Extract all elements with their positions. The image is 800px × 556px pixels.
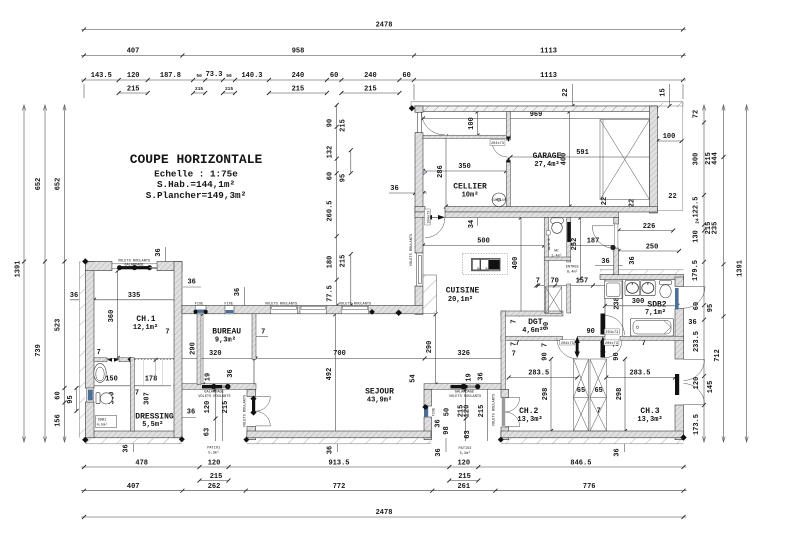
room label SDB1 boxed	[96, 416, 117, 428]
svg-text:SDB1: SDB1	[98, 419, 107, 423]
corner diamonds	[82, 105, 687, 443]
svg-text:19: 19	[204, 373, 212, 381]
wall: left wing north galandage strip	[112, 264, 157, 269]
svg-text:178: 178	[145, 376, 158, 384]
svg-text:204x73: 204x73	[491, 142, 504, 146]
svg-text:SEJOUR: SEJOUR	[365, 388, 394, 397]
wall: bureau/sejour north	[182, 306, 423, 314]
wall: wc east lower	[567, 284, 571, 313]
svg-text:90: 90	[543, 322, 551, 330]
cellier water heater	[491, 193, 506, 207]
closet X: ch3 side	[590, 359, 607, 431]
eaves hatch south right wing	[501, 438, 684, 444]
svg-text:286: 286	[437, 165, 445, 178]
svg-text:240: 240	[292, 72, 305, 80]
svg-text:350: 350	[458, 163, 471, 171]
wall: left wing west seg1	[85, 262, 94, 389]
svg-text:36: 36	[123, 444, 131, 452]
svg-text:261: 261	[457, 483, 470, 491]
tiny label 204x73 ch2 door	[560, 340, 575, 346]
svg-text:36: 36	[688, 319, 696, 327]
wall: cellier inner north	[423, 135, 511, 138]
dim 290 bureau	[189, 312, 205, 387]
dim 238 sdb2	[614, 280, 623, 337]
wc toilet	[546, 218, 563, 235]
svg-text:CH.3: CH.3	[640, 407, 659, 416]
svg-text:252: 252	[571, 238, 579, 251]
door leaf: wc	[567, 222, 570, 242]
svg-text:65: 65	[594, 387, 602, 395]
dim labels galandage areas	[204, 369, 485, 382]
wall: galandage patio2	[424, 384, 504, 390]
svg-text:500: 500	[477, 238, 490, 246]
svg-text:36: 36	[187, 279, 195, 287]
svg-text:120: 120	[464, 405, 472, 418]
eaves hatch top wing	[411, 102, 683, 106]
svg-text:772: 772	[333, 483, 346, 491]
dim labels sdb1/dressing	[94, 349, 171, 405]
svg-text:FIXE: FIXE	[224, 303, 233, 307]
wall: south right wing	[501, 431, 684, 438]
svg-text:1391: 1391	[737, 260, 745, 277]
sdb2 bathtub	[631, 319, 674, 337]
dim 215/444/235/712 right	[705, 105, 726, 442]
svg-text:4,6m²: 4,6m²	[522, 327, 543, 335]
svg-text:95: 95	[67, 395, 75, 403]
svg-text:120: 120	[127, 72, 140, 80]
svg-text:GALANDAGE: GALANDAGE	[124, 263, 143, 267]
dim 7/90 small labels	[511, 319, 646, 360]
svg-text:300: 300	[693, 153, 701, 166]
arc: cellier-garage door	[492, 137, 511, 163]
dim 95/215 secondary	[340, 119, 353, 307]
DIMENSIONS-RIGHT	[692, 105, 748, 442]
svg-text:300: 300	[632, 298, 645, 306]
svg-text:400: 400	[560, 153, 568, 166]
dim labels patio2	[434, 388, 487, 442]
wall: top wing west / kitchen west upper	[415, 106, 423, 112]
dim row 478/120/913.5/120/846.5	[81, 459, 687, 469]
wall: left wing north seg2	[157, 262, 182, 271]
dim 187 hall	[569, 238, 618, 248]
svg-text:7: 7	[642, 340, 646, 348]
svg-text:CH.2: CH.2	[519, 407, 538, 416]
wall: ch2/ch3 north seg3	[620, 336, 684, 340]
dressing north dotted line	[128, 357, 174, 386]
wall: south sejour	[247, 431, 431, 438]
svg-text:215: 215	[478, 405, 486, 418]
sdb1 toilet	[96, 393, 112, 404]
wall: sdb2 west post upper (black)	[601, 314, 606, 335]
wall: ch1/sdb1 divider seg1	[94, 358, 107, 362]
svg-text:DGT: DGT	[528, 318, 543, 327]
svg-text:100: 100	[663, 133, 676, 141]
svg-text:233.5: 233.5	[693, 331, 701, 352]
door leaf: ch2 from dgt	[575, 337, 580, 359]
svg-text:591: 591	[576, 149, 589, 157]
eaves hatch south sejour	[247, 438, 431, 444]
svg-text:CUMULUS: CUMULUS	[491, 199, 506, 203]
dim 290 cuisine/patio	[426, 312, 437, 386]
svg-text:65: 65	[577, 387, 585, 395]
svg-text:7: 7	[515, 340, 519, 348]
svg-text:Echelle : 1:75e: Echelle : 1:75e	[154, 169, 238, 180]
tiny label 204x73 sdb2 door	[604, 329, 619, 335]
wall: ch2 west seg2	[501, 427, 509, 440]
west wall marker	[418, 163, 428, 179]
DIMENSIONS-LEFT	[15, 105, 79, 442]
wall: wc west	[544, 218, 548, 314]
wall: ch2/ch3 north seg2	[578, 336, 606, 340]
dim 65/65/7 closets	[577, 387, 603, 416]
wall: corridor south liner east	[445, 212, 619, 218]
eaves hatch sdb2 north	[600, 270, 684, 275]
arc: dgt-ch2 door	[557, 339, 577, 359]
svg-text:238: 238	[614, 297, 622, 310]
wall: cellier east lower	[506, 160, 510, 207]
svg-text:GALANDAGE: GALANDAGE	[455, 390, 474, 394]
arc: entrance door	[592, 224, 618, 250]
svg-text:13,3m²: 13,3m²	[517, 416, 542, 424]
dim 226 entree	[617, 223, 676, 233]
dim 215 short (patio2)	[447, 473, 480, 483]
kitchen counter west	[423, 275, 437, 314]
svg-text:130: 130	[693, 230, 701, 243]
wall: ch1/sdb1 divider seg2	[119, 358, 134, 362]
dim 591 garage width	[509, 149, 656, 159]
dim 252 hall	[571, 216, 583, 281]
galandage door: patio2 (black bar)	[451, 384, 481, 390]
svg-text:13,3m²: 13,3m²	[637, 416, 662, 424]
garage slab X box	[600, 120, 650, 200]
svg-text:36: 36	[478, 372, 486, 380]
svg-text:50: 50	[226, 73, 232, 79]
svg-text:7: 7	[97, 349, 101, 357]
svg-text:7: 7	[536, 277, 540, 285]
svg-text:36: 36	[434, 419, 442, 427]
svg-text:36: 36	[327, 446, 335, 454]
wall: galandage patio1	[174, 384, 256, 390]
svg-text:120: 120	[693, 377, 701, 390]
svg-text:179.5: 179.5	[692, 260, 700, 281]
svg-text:204x73: 204x73	[428, 211, 432, 224]
wall: sdb2 west post lower (black)	[601, 341, 606, 358]
dim 969 garage north	[421, 111, 659, 121]
svg-text:36: 36	[227, 369, 235, 377]
wall: sejour east seg2	[424, 417, 432, 440]
svg-text:122.5: 122.5	[693, 196, 701, 217]
svg-text:400: 400	[512, 257, 520, 270]
svg-text:478: 478	[135, 459, 148, 467]
dim 7 bureau labels	[165, 329, 268, 337]
svg-text:215: 215	[222, 401, 230, 414]
wall: garage east	[649, 106, 657, 213]
svg-text:1113: 1113	[540, 72, 557, 80]
svg-text:1113: 1113	[540, 48, 557, 56]
dim 300 sdb2	[603, 280, 680, 337]
svg-text:50: 50	[444, 408, 452, 416]
svg-text:VOLETS ROULANTS: VOLETS ROULANTS	[198, 395, 230, 399]
dim row 215s	[117, 85, 402, 95]
sdb2 double washbasin	[625, 281, 655, 296]
dim row 407/262/772/261/776	[81, 483, 687, 493]
window: bureau north fixe 2	[225, 306, 234, 314]
svg-text:PATIO1: PATIO1	[207, 447, 220, 451]
wall: ch2/ch3 north seg1	[501, 336, 563, 340]
svg-text:262: 262	[208, 483, 221, 491]
window: sdb1 west (fixe, blue)	[87, 388, 94, 402]
svg-text:60: 60	[55, 391, 63, 399]
svg-text:215: 215	[458, 473, 471, 481]
svg-text:215: 215	[364, 85, 377, 93]
dim 298 ch2	[542, 357, 553, 433]
wall: sejour west seg1	[247, 389, 256, 396]
wall: wc south	[544, 257, 571, 261]
svg-text:145: 145	[707, 381, 715, 394]
svg-text:187.8: 187.8	[160, 72, 181, 80]
wall: sdb2 north	[600, 275, 684, 280]
svg-text:187: 187	[587, 238, 600, 246]
svg-text:180: 180	[327, 256, 335, 269]
wall: right wing east seg1	[675, 277, 684, 287]
arc: dgt-sdb2 door	[605, 316, 625, 336]
svg-text:652: 652	[55, 178, 63, 191]
dim 652/523/60/156 left	[55, 105, 67, 442]
window: sejour east fixe (blue)	[424, 405, 428, 417]
arc: dgt-ch3 door	[605, 340, 623, 358]
door arrows: cellier-kitchen opening	[425, 215, 445, 220]
wall: entrance east lower	[614, 248, 619, 277]
dim 298 ch3	[616, 357, 627, 433]
dim 36 south rotated labels	[123, 438, 625, 457]
svg-text:36: 36	[629, 256, 637, 264]
svg-text:95: 95	[707, 304, 715, 312]
svg-text:54: 54	[409, 374, 417, 382]
svg-text:7,1m²: 7,1m²	[645, 309, 666, 317]
svg-text:204x73: 204x73	[605, 342, 618, 346]
dim 36 entree	[595, 256, 637, 266]
svg-text:60: 60	[693, 302, 701, 310]
svg-text:140.3: 140.3	[241, 72, 262, 80]
svg-text:36: 36	[234, 288, 242, 296]
svg-text:36: 36	[435, 448, 443, 456]
dim 95/145 right short	[707, 304, 715, 394]
svg-text:913.5: 913.5	[328, 459, 349, 467]
wall: kitchen west lower (below window)	[415, 286, 423, 314]
svg-text:846.5: 846.5	[570, 459, 591, 467]
dim 95 left short	[67, 386, 79, 413]
svg-text:7: 7	[512, 351, 516, 359]
svg-text:444: 444	[711, 152, 719, 165]
svg-text:712: 712	[714, 349, 722, 362]
svg-text:215: 215	[340, 119, 348, 132]
svg-text:335: 335	[128, 292, 141, 300]
svg-text:7: 7	[597, 408, 601, 416]
svg-text:7: 7	[261, 329, 265, 337]
wall: left wing north seg1	[85, 262, 112, 271]
svg-text:27,4m²: 27,4m²	[534, 161, 559, 169]
wall: dgt west	[501, 311, 506, 389]
svg-text:90: 90	[586, 328, 594, 336]
svg-text:50: 50	[196, 73, 202, 79]
door leaf: ch3 from dgt	[600, 337, 605, 359]
wall: south left wing	[85, 431, 182, 438]
arc: sdb2 east door	[684, 287, 706, 309]
svg-text:COUPE HORIZONTALE: COUPE HORIZONTALE	[130, 152, 263, 167]
svg-text:298: 298	[542, 388, 550, 401]
dim row 143.5 .. 1113	[81, 71, 686, 82]
svg-text:95: 95	[340, 174, 348, 182]
svg-text:72: 72	[693, 110, 701, 118]
svg-text:ENTREE: ENTREE	[566, 266, 579, 270]
dim 100 cellier door	[468, 110, 480, 138]
arc: ch2 patio french door	[502, 398, 520, 427]
svg-text:36: 36	[390, 185, 398, 193]
svg-text:298: 298	[616, 388, 624, 401]
window: sejour west (black bar)	[252, 400, 255, 412]
arc: cellier-kitchen door	[425, 218, 445, 238]
svg-text:283.5: 283.5	[528, 370, 549, 378]
svg-text:215: 215	[127, 85, 140, 93]
wall: garage/corridor south outer west part	[415, 207, 425, 213]
svg-text:132: 132	[327, 146, 335, 159]
dim row 407/958/1113	[81, 48, 686, 58]
svg-text:250: 250	[646, 243, 659, 251]
svg-text:290: 290	[426, 341, 434, 354]
tiny label 204x73 cellier-kitchen door rot	[425, 209, 432, 225]
svg-text:60: 60	[402, 72, 410, 80]
dim 2478 top	[81, 22, 686, 32]
svg-text:157: 157	[576, 277, 589, 285]
wall: garage/corridor south outer east part	[445, 207, 657, 213]
svg-text:739: 739	[35, 344, 43, 357]
svg-text:VOLETS ROULANTS: VOLETS ROULANTS	[493, 394, 497, 426]
svg-text:958: 958	[292, 48, 305, 56]
svg-text:GALANDAGE: GALANDAGE	[204, 390, 223, 394]
eaves hatch garage east	[657, 102, 682, 211]
closet X: ch2 side	[574, 359, 589, 431]
svg-text:9,3m²: 9,3m²	[215, 337, 236, 345]
svg-text:235: 235	[711, 222, 719, 235]
dim 283.5 ch3	[604, 370, 677, 380]
svg-text:63: 63	[204, 428, 212, 436]
svg-text:407: 407	[127, 483, 140, 491]
svg-text:150: 150	[105, 376, 118, 384]
arc: ch3 east french door	[684, 360, 705, 405]
svg-text:VOLETS ROULANTS: VOLETS ROULANTS	[265, 303, 297, 307]
svg-text:204x73: 204x73	[605, 331, 618, 335]
galandage door: patio1 (black bar)	[202, 384, 231, 389]
svg-text:FIXE: FIXE	[195, 303, 204, 307]
svg-text:19: 19	[466, 373, 474, 381]
DIMENSIONS-TOP	[81, 22, 686, 101]
svg-text:143.5: 143.5	[91, 72, 112, 80]
svg-text:215: 215	[225, 86, 233, 92]
wall: bureau east thin continuation	[253, 359, 255, 384]
wall: cellier east upper	[506, 112, 510, 141]
dim 360 ch1	[108, 269, 120, 360]
svg-text:WC: WC	[554, 250, 558, 254]
svg-text:VOLETS ROULANTS: VOLETS ROULANTS	[244, 395, 248, 427]
svg-text:240: 240	[364, 72, 377, 80]
svg-text:120: 120	[208, 459, 221, 467]
svg-text:226: 226	[643, 223, 656, 231]
dim 215 short (patio1)	[198, 473, 231, 483]
svg-text:5,5m²: 5,5m²	[142, 421, 163, 429]
svg-text:204x73: 204x73	[561, 342, 574, 346]
svg-text:2478: 2478	[376, 509, 393, 517]
dim 36/335 ch1	[70, 292, 180, 302]
svg-text:36: 36	[187, 409, 195, 417]
wall: top wing north	[415, 106, 657, 112]
svg-text:90: 90	[542, 352, 550, 360]
dim 100 garage right	[655, 133, 683, 143]
closet X: dgt	[545, 287, 561, 313]
wall: bureau west pocket	[197, 314, 201, 385]
dim 492 sejour	[326, 312, 337, 435]
dim labels patio1	[204, 388, 230, 442]
dim 7/70/157 hall	[535, 277, 617, 287]
extension lines top	[83, 84, 85, 98]
wall: sejour west seg2	[247, 427, 256, 440]
wall: right wing east seg2	[675, 309, 684, 360]
door arrows: sdb1 opening	[107, 358, 119, 362]
svg-text:73.3: 73.3	[206, 71, 223, 79]
svg-text:5,3m²: 5,3m²	[208, 452, 219, 456]
svg-text:1391: 1391	[15, 261, 23, 278]
svg-text:120: 120	[457, 459, 470, 467]
svg-text:7: 7	[542, 343, 550, 347]
dim chain 90/132/60/260.5/180/77.5	[327, 103, 339, 308]
svg-text:10m²: 10m²	[462, 192, 479, 200]
svg-text:CUISINE: CUISINE	[446, 287, 480, 296]
svg-text:98: 98	[443, 426, 451, 434]
dim 652/739 left	[35, 105, 47, 442]
dim 36 dressing east wall	[178, 409, 197, 418]
svg-text:60: 60	[327, 172, 335, 180]
dim 2478 bottom	[81, 509, 687, 519]
svg-text:36: 36	[155, 248, 163, 256]
galandage door: left wing north (black bar)	[117, 265, 157, 270]
svg-text:S.Plancher=149,3m²: S.Plancher=149,3m²	[146, 190, 246, 201]
wall: left wing west seg2	[85, 402, 94, 438]
TITLE	[130, 152, 263, 201]
svg-text:63: 63	[464, 430, 472, 438]
eaves hatch left wing west	[79, 262, 85, 438]
svg-text:173.5: 173.5	[693, 414, 701, 435]
svg-text:215: 215	[340, 255, 348, 268]
tiny label 204x73 cellier-garage door	[490, 140, 505, 146]
dim 34	[468, 218, 478, 229]
svg-text:360: 360	[108, 310, 116, 323]
dim line 320/700/326	[91, 350, 505, 361]
svg-text:22: 22	[562, 88, 570, 96]
svg-text:320: 320	[209, 350, 222, 358]
svg-text:24: 24	[695, 218, 701, 224]
svg-text:CELLIER: CELLIER	[453, 183, 487, 192]
svg-text:PATIO2: PATIO2	[459, 447, 472, 451]
svg-text:407: 407	[127, 48, 140, 56]
junction dot bureau band east	[369, 309, 375, 315]
dim 286 cellier height	[437, 135, 448, 209]
svg-text:CH.1: CH.1	[136, 315, 155, 324]
svg-text:7: 7	[135, 390, 139, 398]
kitchen island	[472, 259, 501, 271]
dim 283.5 ch2	[507, 370, 580, 380]
svg-text:215: 215	[292, 85, 305, 93]
svg-text:34: 34	[468, 220, 476, 228]
DIMENSIONS-INNER	[70, 84, 697, 457]
